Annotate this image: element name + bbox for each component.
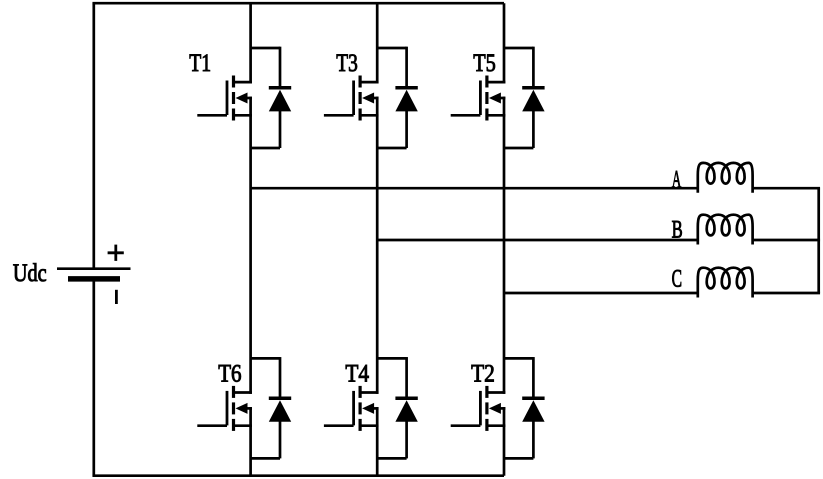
svg-text:T3: T3 [336, 50, 358, 77]
svg-text:T1: T1 [189, 50, 211, 77]
svg-text:Udc: Udc [13, 260, 47, 287]
svg-text:B: B [672, 216, 683, 243]
svg-text:T5: T5 [473, 50, 496, 77]
svg-text:C: C [672, 266, 682, 293]
svg-text:T2: T2 [471, 361, 495, 388]
svg-text:A: A [672, 166, 682, 193]
svg-text:T4: T4 [345, 361, 369, 388]
svg-text:T6: T6 [218, 361, 241, 388]
